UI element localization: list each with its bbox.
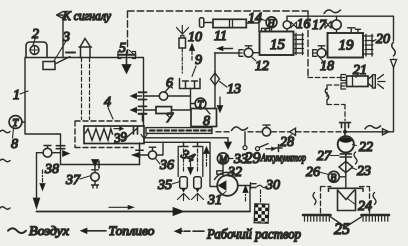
svg-text:К сигналу: К сигналу xyxy=(62,9,111,23)
resistor 7 xyxy=(156,107,172,114)
label 8 xyxy=(11,129,18,153)
svg-text:38: 38 xyxy=(44,162,59,177)
distributor 24 xyxy=(329,188,364,210)
box 8 xyxy=(191,109,217,130)
tank 1 xyxy=(25,58,144,135)
label 13 xyxy=(220,82,242,98)
svg-text:31: 31 xyxy=(207,193,222,208)
label 4 xyxy=(104,95,113,119)
svg-text:37: 37 xyxy=(65,173,81,188)
air outlet arrow below 38 xyxy=(40,170,45,191)
flow arrow in heater xyxy=(114,127,124,131)
label 26 xyxy=(306,165,329,180)
filler fitting 5 xyxy=(118,51,136,59)
label 33 xyxy=(230,152,249,167)
dashed vapour line top xyxy=(128,11,309,77)
label 5 xyxy=(119,41,134,56)
tank 19 xyxy=(328,33,364,58)
inflow arrow B xyxy=(130,107,141,112)
drain Y fitting xyxy=(141,135,147,142)
svg-text:3: 3 xyxy=(62,30,70,45)
spray boom left 25 xyxy=(303,215,331,221)
boom enclosure dashed xyxy=(321,187,370,214)
pump suction line xyxy=(238,186,250,212)
level sender 3 xyxy=(43,53,75,70)
line L2 to pump xyxy=(144,142,217,186)
suction hose 30 xyxy=(251,183,267,204)
svg-text:В: В xyxy=(330,173,336,184)
label 7 xyxy=(166,111,174,126)
float bracket 9 xyxy=(180,79,201,89)
svg-text:19: 19 xyxy=(339,38,355,54)
svg-text:23: 23 xyxy=(357,164,371,179)
motor 33 xyxy=(217,153,228,175)
svg-text:35: 35 xyxy=(157,178,172,193)
pump unit 2 xyxy=(26,42,47,58)
label 23 xyxy=(352,164,371,179)
pump 22 top tee xyxy=(340,123,351,137)
line L1 to motor xyxy=(144,138,232,149)
arrow down in 34 xyxy=(188,162,194,175)
gauge 14 xyxy=(266,17,277,32)
wall flanges pipe A xyxy=(139,92,147,99)
air hose to sprayer dashed xyxy=(308,78,345,121)
svg-text:Воздух: Воздух xyxy=(29,223,69,238)
svg-text:6: 6 xyxy=(166,76,173,91)
svg-text:Топливо: Топливо xyxy=(109,223,156,238)
flow arrow beside 13 xyxy=(217,97,223,113)
hose break S xyxy=(325,88,329,100)
boom feed V xyxy=(331,217,362,227)
svg-text:27: 27 xyxy=(317,149,332,164)
top supply line xyxy=(287,10,397,132)
svg-text:26: 26 xyxy=(306,165,320,180)
label 20 xyxy=(373,32,390,47)
gauge 8 on tank xyxy=(9,116,25,129)
valve 28 xyxy=(262,125,270,136)
label 31 xyxy=(207,192,226,209)
cap on 19 xyxy=(348,28,361,33)
pipe with resistor 7 xyxy=(144,109,191,111)
coupling 27 xyxy=(340,152,351,161)
svg-text:8: 8 xyxy=(11,137,18,152)
air main to compressor xyxy=(216,127,345,132)
label 9 xyxy=(192,53,202,77)
valve 38 xyxy=(37,146,61,158)
thermo sensor T xyxy=(191,98,211,114)
fittings on 15 xyxy=(262,28,270,31)
svg-text:17: 17 xyxy=(312,18,327,33)
suction chamber 34 xyxy=(178,142,203,176)
label 18 xyxy=(320,58,334,75)
valve 6 xyxy=(159,85,172,100)
legend air xyxy=(8,228,26,233)
drain stub from L2 xyxy=(136,143,143,165)
pipe from valve 6 xyxy=(144,95,191,97)
heating element zigzag xyxy=(86,129,113,140)
valve 36 xyxy=(132,144,163,160)
pump 22 xyxy=(338,136,354,152)
label 14 xyxy=(248,11,266,26)
svg-text:30: 30 xyxy=(265,178,280,193)
check valve 13 drop xyxy=(211,53,220,109)
svg-text:36: 36 xyxy=(159,158,174,173)
flow arrow to tank top xyxy=(217,46,233,51)
hose fitting 32 xyxy=(217,171,222,174)
label 37 xyxy=(65,173,90,188)
vent T on enclosure xyxy=(139,114,147,122)
label 1 xyxy=(13,88,28,103)
label 28 xyxy=(280,135,294,150)
svg-text:8: 8 xyxy=(203,114,210,129)
valve 37 branch xyxy=(91,160,100,189)
legend solution arrow xyxy=(175,228,205,234)
filter screen xyxy=(254,204,269,223)
legend fuel arrow xyxy=(81,228,107,234)
edge squiggle marks xyxy=(0,130,10,209)
svg-text:11: 11 xyxy=(214,29,227,44)
svg-text:7: 7 xyxy=(166,111,174,126)
label 12 xyxy=(252,57,270,74)
svg-text:21: 21 xyxy=(353,63,367,78)
supply line right of pump xyxy=(343,126,393,135)
valve 17 xyxy=(325,16,341,33)
label 22 xyxy=(353,140,374,155)
svg-text:25: 25 xyxy=(334,221,350,238)
svg-text:Рабочий раствор: Рабочий раствор xyxy=(206,227,301,242)
spray boom right 25 xyxy=(362,215,390,221)
svg-text:2: 2 xyxy=(32,27,39,42)
tank 15 xyxy=(260,32,294,56)
manifold pipe xyxy=(146,128,212,134)
label 32 xyxy=(223,165,243,180)
svg-text:4: 4 xyxy=(104,95,111,110)
heater enclosure dashed 4 xyxy=(75,121,137,148)
label 27 xyxy=(317,149,339,164)
tank drain line xyxy=(56,134,139,168)
inlet arrow into tank xyxy=(122,59,131,74)
nozzle 10 xyxy=(177,26,189,76)
svg-text:15: 15 xyxy=(270,37,286,53)
nozzles 35 xyxy=(178,177,204,201)
label 24 xyxy=(348,199,373,215)
svg-text:20: 20 xyxy=(376,32,390,47)
svg-text:18: 18 xyxy=(320,59,334,74)
svg-text:16: 16 xyxy=(297,17,311,32)
sprayer 21 xyxy=(341,75,385,90)
heater box xyxy=(84,126,144,144)
svg-text:13: 13 xyxy=(227,82,241,97)
inflow arrow A xyxy=(130,93,141,98)
valve 18 xyxy=(313,46,328,58)
svg-text:12: 12 xyxy=(255,59,269,74)
connector 39 xyxy=(123,127,138,141)
upflow arrow near 30 xyxy=(243,186,248,202)
svg-text:10: 10 xyxy=(188,30,202,45)
check symbol 28 xyxy=(290,128,296,135)
hose break S left xyxy=(313,193,316,205)
upflow arrow dashdot xyxy=(204,147,210,167)
gauge 26 xyxy=(328,171,346,184)
valve 16 xyxy=(283,16,296,31)
heat fins of 15 xyxy=(294,34,304,55)
label 21 xyxy=(353,63,367,78)
signal wire К сигналу xyxy=(57,12,64,58)
label 3 xyxy=(54,30,70,61)
hose break S 27 xyxy=(354,152,357,164)
cylinder 11 xyxy=(200,18,260,32)
label 36 xyxy=(156,158,174,173)
svg-text:29: 29 xyxy=(245,150,261,167)
pump 31 xyxy=(215,172,238,195)
label 35 xyxy=(157,178,180,193)
svg-text:22: 22 xyxy=(359,140,373,155)
svg-text:1: 1 xyxy=(13,88,20,103)
battery switch 29 xyxy=(243,132,282,152)
up arrow to cylinder xyxy=(189,44,194,61)
hose break S right xyxy=(373,193,376,205)
check valve 23 xyxy=(339,161,353,189)
breather cap xyxy=(79,39,92,58)
filler tube dashed xyxy=(82,58,90,120)
heat fins 20 xyxy=(363,35,373,57)
svg-text:Аккумулятор: Аккумулятор xyxy=(260,153,306,164)
svg-text:5: 5 xyxy=(119,41,126,56)
wall flanges pipe B xyxy=(139,106,147,114)
valve 12 xyxy=(215,46,260,57)
drop pipe from bracket 9 xyxy=(190,89,192,111)
label 2 xyxy=(32,27,39,45)
bottom collector line xyxy=(33,153,250,216)
